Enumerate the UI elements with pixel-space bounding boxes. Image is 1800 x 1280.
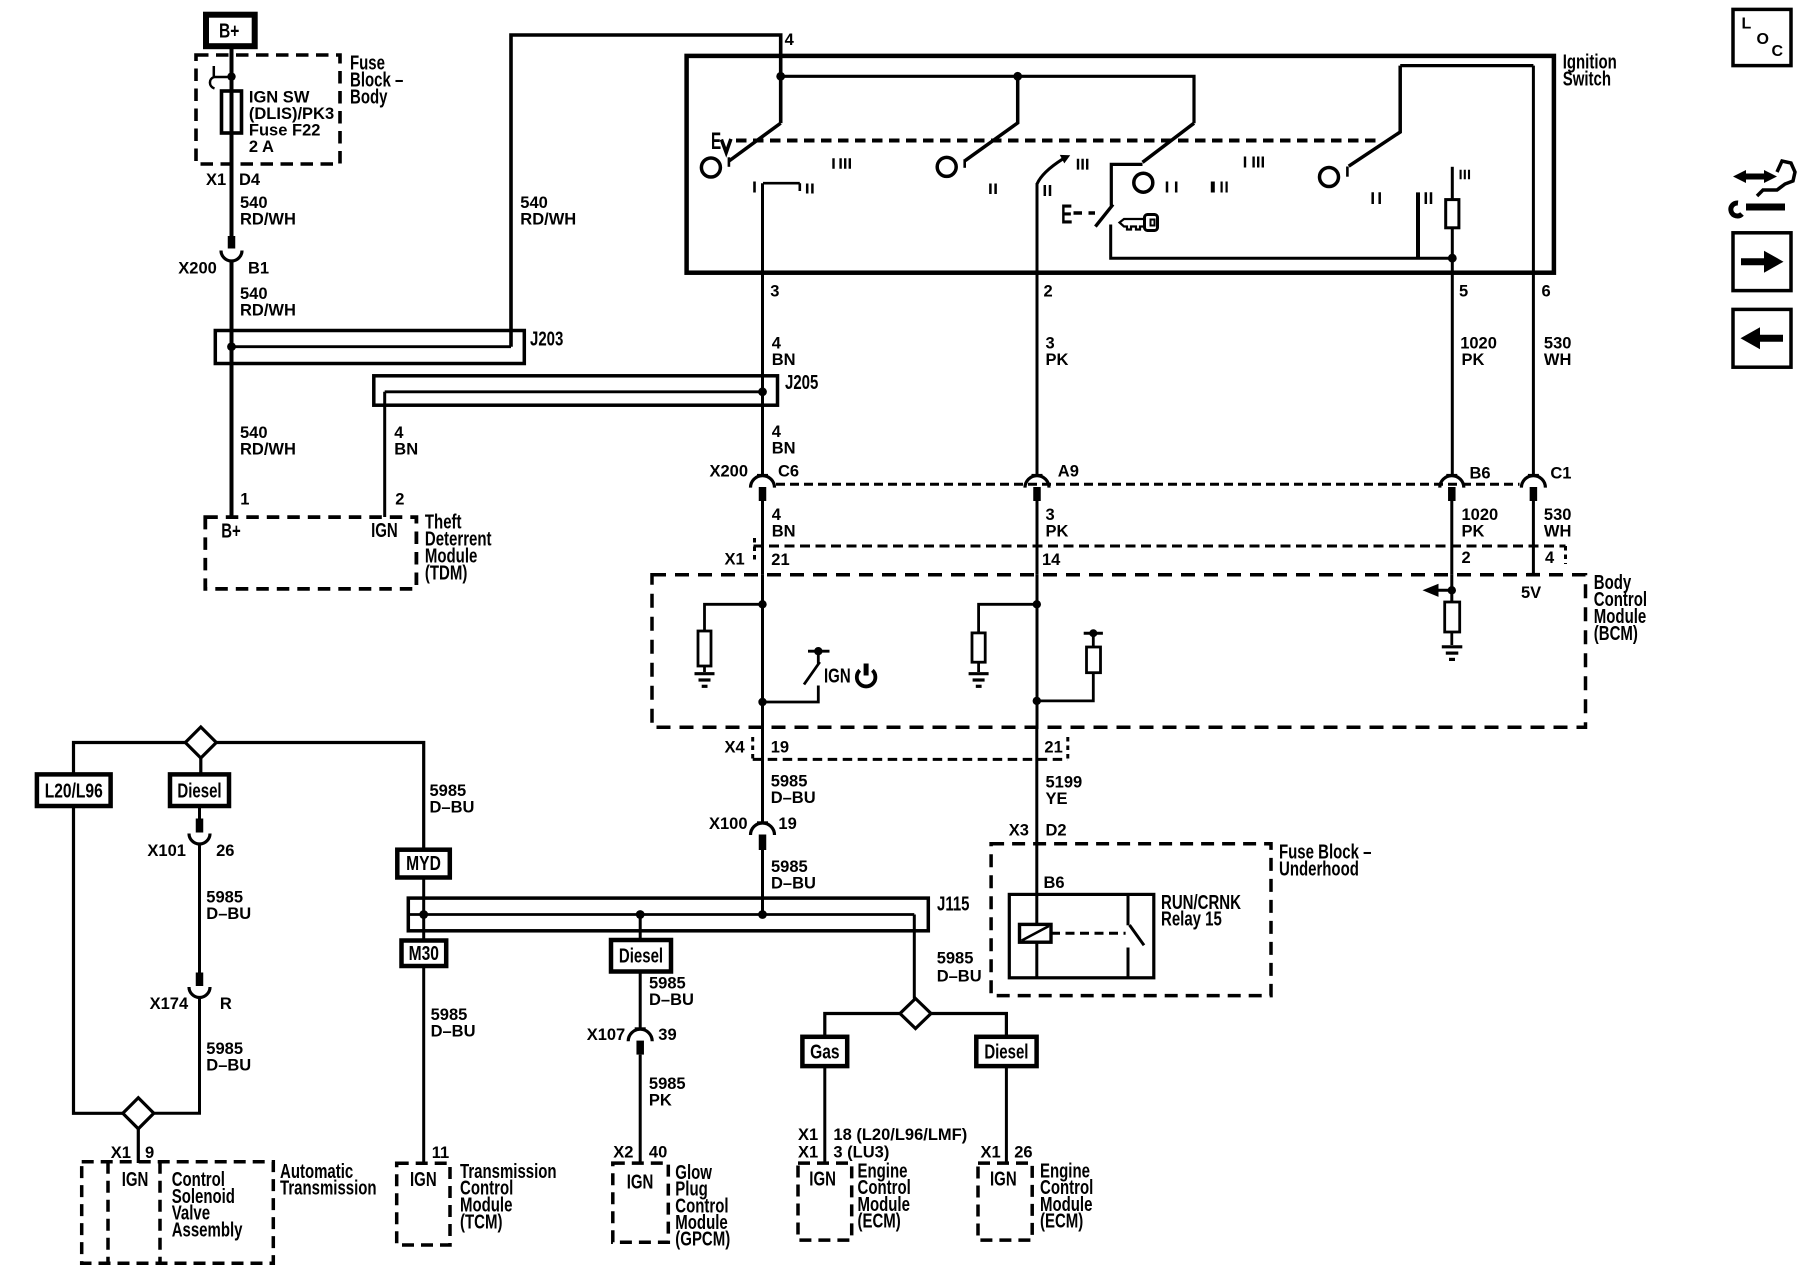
- resistor R-21 branch: [705, 604, 763, 631]
- wafer 5 blade: [1349, 66, 1401, 167]
- svg-text:1: 1: [240, 491, 249, 509]
- wafer 5 marks: [1373, 192, 1380, 204]
- ground (BCM right): [1442, 645, 1463, 648]
- wire label 4 BN (pin 3 mid): [772, 423, 796, 458]
- svg-text:J205: J205: [785, 371, 818, 394]
- svg-text:C1: C1: [1550, 465, 1571, 483]
- svg-text:540: 540: [240, 285, 268, 303]
- wire diamond to Diesel tag (ECM branch): [931, 1014, 1006, 1037]
- svg-text:18 (L20/L96/LMF): 18 (L20/L96/LMF): [833, 1126, 967, 1144]
- wire diamond to Diesel tag (left): [199, 758, 202, 774]
- wire B+ feed down to TDM pin 1: [230, 46, 234, 249]
- svg-text:IGN: IGN: [627, 1171, 654, 1194]
- wire X174 down to diamond: [154, 998, 200, 1114]
- relay contact: [1127, 894, 1130, 925]
- svg-text:X1: X1: [798, 1143, 818, 1161]
- svg-text:B1: B1: [248, 260, 269, 278]
- wire X100 to J115: [761, 850, 764, 915]
- svg-text:IGN: IGN: [122, 1168, 149, 1191]
- wire C6 to BCM pin 21: [761, 501, 764, 575]
- svg-text:2: 2: [395, 491, 404, 509]
- wafer 4 marks III and II: [1078, 159, 1087, 170]
- svg-text:4: 4: [772, 334, 782, 352]
- wire label 540 RD/WH: [240, 194, 296, 229]
- svg-text:IGN SW: IGN SW: [249, 89, 310, 107]
- switch wafer 1 blade: [729, 123, 781, 161]
- resistor in ignition switch: [1446, 200, 1459, 228]
- svg-text:E: E: [711, 128, 721, 154]
- svg-text:B6: B6: [1044, 874, 1065, 892]
- wire label 3 PK (pin 2 upper): [1046, 334, 1069, 369]
- svg-text:X101: X101: [147, 842, 186, 860]
- svg-text:4: 4: [394, 424, 404, 442]
- wire J205 to TDM pin 2: [383, 392, 386, 517]
- svg-text:O: O: [1757, 31, 1769, 48]
- wire BCM pin 21 internal: [761, 575, 764, 727]
- svg-text:19: 19: [778, 815, 796, 833]
- diagnostic tool icon: [1744, 174, 1766, 180]
- connector X200 dashed line: [776, 483, 1520, 486]
- key symbol: [1145, 215, 1158, 231]
- wafer 2 pivot: [937, 157, 956, 176]
- connector X200 pin C1: [1528, 474, 1539, 477]
- wafer 3 pivot: [1134, 173, 1153, 192]
- wire label 4 BN (lower): [772, 506, 796, 541]
- svg-text:X4: X4: [725, 739, 746, 757]
- svg-text:WH: WH: [1544, 522, 1572, 540]
- wire X107 to GPCM: [639, 1055, 642, 1164]
- back arrow box: [1733, 309, 1791, 367]
- pull-up resistor on pin 14: [1084, 632, 1103, 635]
- wire M30 to TCM: [422, 966, 425, 1163]
- svg-text:YE: YE: [1046, 790, 1068, 808]
- svg-text:RD/WH: RD/WH: [240, 211, 296, 229]
- wire label 5985 D-BU: [771, 773, 816, 808]
- svg-text:X2: X2: [613, 1144, 633, 1162]
- power icon: [857, 670, 876, 686]
- svg-text:X174: X174: [150, 995, 189, 1013]
- E position label wafer 1: [711, 128, 721, 154]
- svg-text:A9: A9: [1058, 462, 1079, 480]
- svg-text:D–BU: D–BU: [206, 905, 251, 923]
- connector X3 pin D2 labels: [1009, 822, 1067, 840]
- svg-text:Relay 15: Relay 15: [1161, 907, 1222, 930]
- wire from top loop down to MYD: [216, 743, 423, 850]
- CSVA pin labels X1 9: [111, 1144, 154, 1162]
- Glow Plug Control Module dashed box: [613, 1163, 669, 1242]
- BCM connector X1 dotted line: [754, 545, 1566, 548]
- connector X200 pin A9: [1032, 474, 1043, 477]
- svg-text:21: 21: [771, 551, 789, 569]
- svg-text:5985: 5985: [649, 1075, 686, 1093]
- svg-text:2 A: 2 A: [249, 138, 274, 156]
- svg-text:Diesel: Diesel: [619, 944, 663, 967]
- wire Diesel tag to X107: [639, 972, 642, 1029]
- connector X200 pin C6: [757, 474, 768, 477]
- Body Control Module dashed box: [652, 575, 1586, 728]
- svg-text:PK: PK: [1046, 522, 1069, 540]
- connector X200 pin B1 (inline): [228, 236, 236, 249]
- wire left loop top: [74, 743, 186, 775]
- Engine Control Module (diesel) dashed box: [978, 1163, 1032, 1240]
- svg-text:IGN: IGN: [371, 519, 398, 542]
- svg-text:(TDM): (TDM): [425, 561, 467, 584]
- Engine Control Module (gas) dashed box: [798, 1163, 852, 1240]
- svg-text:IGN: IGN: [824, 664, 851, 687]
- svg-text:1020: 1020: [1462, 506, 1499, 524]
- svg-text:X1: X1: [111, 1144, 131, 1162]
- svg-text:Switch: Switch: [1563, 67, 1611, 90]
- svg-text:19: 19: [771, 739, 789, 757]
- wire label 530 WH (pin 6 upper): [1544, 334, 1572, 369]
- wafer 1 position marks I III: [834, 158, 850, 169]
- IGN sense switch inside BCM: [808, 650, 830, 653]
- svg-text:B+: B+: [221, 520, 241, 543]
- svg-text:26: 26: [216, 842, 234, 860]
- svg-text:2: 2: [1462, 549, 1471, 567]
- svg-text:1020: 1020: [1460, 334, 1497, 352]
- Diesel tag (ECM branch): [976, 1037, 1036, 1066]
- B+ terminal: [206, 15, 255, 47]
- svg-text:BN: BN: [394, 441, 418, 459]
- svg-text:Transmission: Transmission: [280, 1176, 377, 1199]
- M30 tag: [402, 941, 447, 967]
- svg-text:E: E: [1061, 198, 1072, 229]
- svg-text:D2: D2: [1046, 822, 1067, 840]
- wire BCM pin 2 internal: [1450, 575, 1453, 602]
- wire BCM pin 21 (X4) to fuse block: [1035, 727, 1038, 924]
- svg-text:4: 4: [772, 506, 782, 524]
- svg-text:X200: X200: [178, 260, 217, 278]
- svg-text:Fuse F22: Fuse F22: [249, 122, 321, 140]
- svg-text:D4: D4: [239, 171, 261, 189]
- svg-text:D–BU: D–BU: [206, 1057, 251, 1075]
- svg-text:6: 6: [1542, 283, 1551, 301]
- wire Gas to ECM: [823, 1066, 826, 1163]
- svg-text:Gas: Gas: [810, 1041, 839, 1063]
- wire X101 to X174: [198, 844, 201, 973]
- svg-text:530: 530: [1544, 334, 1572, 352]
- svg-text:(ECM): (ECM): [858, 1209, 901, 1232]
- svg-text:5985: 5985: [771, 773, 808, 791]
- resistor R-2: [1445, 602, 1460, 632]
- wire ignition pin 2: [1036, 183, 1039, 475]
- svg-text:D–BU: D–BU: [431, 1023, 476, 1041]
- wire from J203 up and over to ignition switch pin 4: [511, 35, 781, 347]
- wafer 2 position marks II: [990, 184, 995, 195]
- svg-text:RD/WH: RD/WH: [240, 302, 296, 320]
- fuse block name: [350, 51, 403, 108]
- svg-text:14: 14: [1042, 551, 1061, 569]
- wafer 3 position marks: [1167, 182, 1176, 193]
- ignition switch box: [687, 56, 1554, 273]
- MYD tag: [397, 850, 450, 878]
- svg-text:3: 3: [770, 283, 779, 301]
- svg-text:D–BU: D–BU: [937, 968, 982, 986]
- RUN/CRNK Relay 15 box: [1009, 894, 1154, 977]
- svg-text:X1: X1: [798, 1126, 818, 1144]
- TCM pin 11 label: [432, 1144, 449, 1162]
- switch wafer 3 (key) blade: [1143, 123, 1195, 162]
- wafer 5 resistor branch: [1451, 167, 1454, 200]
- wire label 3 PK (lower): [1046, 506, 1069, 541]
- svg-text:4: 4: [1545, 549, 1555, 567]
- svg-text:IGN: IGN: [990, 1168, 1017, 1191]
- svg-text:(ECM): (ECM): [1040, 1209, 1083, 1232]
- splice J115: [408, 898, 928, 931]
- wafer 3 E contact blade: [1095, 205, 1113, 227]
- svg-text:X3: X3: [1009, 822, 1029, 840]
- connector X100 pin 19: [757, 821, 768, 824]
- relay coil: [1020, 924, 1052, 942]
- diamond split gas/diesel: [900, 999, 931, 1029]
- wire label 1020 PK (lower): [1462, 506, 1499, 541]
- svg-text:(TCM): (TCM): [460, 1210, 502, 1233]
- svg-text:21: 21: [1044, 739, 1062, 757]
- Diesel tag (GPCM branch): [611, 940, 671, 972]
- wire label 530 WH (lower): [1544, 506, 1572, 541]
- svg-text:IGN: IGN: [809, 1168, 836, 1191]
- svg-text:(DLIS)/PK3: (DLIS)/PK3: [249, 105, 334, 123]
- svg-text:D–BU: D–BU: [771, 789, 816, 807]
- svg-text:Body: Body: [350, 85, 388, 108]
- ground (BCM mid): [969, 672, 989, 675]
- Transmission Control Module dashed box: [397, 1163, 450, 1245]
- svg-text:PK: PK: [649, 1091, 672, 1109]
- wire ignition pin 5: [1451, 258, 1454, 475]
- wire J115 to M30: [422, 915, 425, 941]
- svg-text:X100: X100: [709, 815, 748, 833]
- pin 4 label: [785, 31, 795, 49]
- svg-text:530: 530: [1544, 506, 1572, 524]
- diamond merge bottom-left: [123, 1098, 154, 1129]
- switch wafer 4 curved blade with arrow: [1037, 159, 1063, 184]
- svg-text:RD/WH: RD/WH: [240, 441, 296, 459]
- svg-text:540: 540: [240, 424, 268, 442]
- svg-text:5985: 5985: [431, 1006, 468, 1024]
- splice J205: [374, 376, 778, 405]
- forward arrow box: [1733, 233, 1791, 291]
- svg-text:WH: WH: [1544, 351, 1572, 369]
- LOC legend box: [1733, 9, 1791, 65]
- svg-text:BN: BN: [772, 522, 796, 540]
- splice J203: [215, 331, 524, 364]
- svg-text:Underhood: Underhood: [1279, 857, 1359, 880]
- svg-text:B+: B+: [219, 20, 239, 42]
- wire ignition pin 3: [761, 183, 764, 475]
- wire A9 to BCM pin 14: [1036, 501, 1039, 575]
- svg-text:Diesel: Diesel: [177, 779, 221, 802]
- diamond split top-left: [185, 727, 216, 758]
- TDM pin labels: [240, 491, 404, 509]
- wire diamond to Gas tag: [825, 1014, 900, 1037]
- connector X174 pin R: [196, 973, 204, 987]
- BCM 5V label: [1521, 584, 1541, 602]
- svg-text:5199: 5199: [1046, 774, 1083, 792]
- svg-text:(BCM): (BCM): [1594, 622, 1638, 645]
- wire BCM pin 14 internal: [1036, 575, 1039, 727]
- svg-text:5985: 5985: [206, 888, 243, 906]
- svg-text:D–BU: D–BU: [649, 991, 694, 1009]
- svg-text:Assembly: Assembly: [172, 1218, 243, 1241]
- connector X101 pin 26: [196, 819, 204, 833]
- wafer 1 pivot: [701, 158, 720, 177]
- Gas tag: [802, 1037, 847, 1066]
- svg-text:39: 39: [658, 1026, 676, 1044]
- svg-text:C6: C6: [778, 462, 799, 480]
- wire C1 to BCM pin 4: [1532, 501, 1535, 574]
- svg-text:PK: PK: [1462, 522, 1485, 540]
- GPCM pin labels X2 40: [613, 1144, 667, 1162]
- svg-text:540: 540: [520, 194, 548, 212]
- svg-text:BN: BN: [772, 440, 796, 458]
- wire label 1020 PK (pin 5 upper): [1460, 334, 1497, 369]
- relay actuation dashed link: [1051, 932, 1126, 935]
- Control Solenoid Valve Assembly dashed box: [82, 1162, 274, 1264]
- svg-text:C: C: [1772, 43, 1784, 60]
- ECM diesel pin labels X1 26: [981, 1143, 1033, 1161]
- svg-text:4: 4: [772, 423, 782, 441]
- wire B6 to BCM pin 2: [1450, 501, 1453, 575]
- svg-text:J203: J203: [530, 327, 563, 350]
- svg-text:26: 26: [1014, 1143, 1032, 1161]
- svg-text:5V: 5V: [1521, 584, 1541, 602]
- svg-text:L20/L96: L20/L96: [45, 780, 103, 802]
- ground (BCM left): [695, 672, 715, 675]
- svg-text:X107: X107: [587, 1026, 626, 1044]
- wire J115 to Diesel tag (GPCM branch): [639, 915, 642, 941]
- switch wafer 2 blade: [965, 76, 1018, 160]
- wire diamond to CSVA pin 9: [137, 1129, 140, 1163]
- svg-text:BN: BN: [772, 351, 796, 369]
- ignition pin numbers: [770, 283, 1550, 301]
- switch wafer 5 bus to pin 6: [1400, 64, 1533, 67]
- Fuse Block - Body dashed box: [196, 55, 340, 164]
- svg-text:4: 4: [785, 31, 795, 49]
- svg-text:40: 40: [649, 1144, 667, 1162]
- wafer 1 contact I-II: [753, 182, 756, 193]
- wire MYD to J115: [422, 878, 425, 915]
- svg-text:D–BU: D–BU: [430, 798, 475, 816]
- wafer 5 pivot: [1320, 168, 1339, 187]
- arrow (signal out): [1436, 589, 1455, 592]
- wire J115 right leg down to diamond: [913, 915, 916, 999]
- wire Diesel to ECM: [1005, 1066, 1008, 1163]
- svg-text:11: 11: [432, 1144, 449, 1162]
- fuse F22 (IGN SW fuse): [222, 91, 242, 133]
- svg-text:Diesel: Diesel: [984, 1040, 1028, 1063]
- node: fuse block internal tap (hook): [227, 72, 235, 80]
- connector X1 pin D4 labels: [206, 171, 261, 189]
- ECM gas pin labels: [798, 1126, 967, 1161]
- resistor R-14 branch: [979, 604, 1037, 633]
- svg-text:5985: 5985: [430, 782, 467, 800]
- wire label 540 RD/WH: [240, 285, 296, 320]
- L20/L96 tag: [37, 774, 111, 806]
- svg-text:X1: X1: [206, 171, 226, 189]
- svg-text:L: L: [1742, 16, 1752, 33]
- wire ignition pin 6: [1532, 66, 1535, 475]
- Diesel tag (left): [170, 774, 229, 806]
- svg-text:PK: PK: [1462, 351, 1485, 369]
- node on pin 21 wire: [758, 600, 766, 608]
- svg-text:RD/WH: RD/WH: [520, 211, 576, 229]
- wire Diesel to X101: [198, 806, 201, 819]
- svg-text:PK: PK: [1046, 351, 1069, 369]
- svg-text:M30: M30: [409, 942, 439, 964]
- relay pin B6 label: [1044, 874, 1065, 892]
- svg-text:540: 540: [240, 194, 268, 212]
- wafer 5 contact pin II: [1416, 192, 1420, 258]
- svg-text:5985: 5985: [771, 858, 808, 876]
- svg-text:X1: X1: [981, 1143, 1001, 1161]
- svg-text:3: 3: [1046, 334, 1055, 352]
- connector X107 pin 39: [635, 1027, 646, 1030]
- svg-text:IGN: IGN: [410, 1168, 437, 1191]
- svg-text:X200: X200: [710, 462, 749, 480]
- wire label 540 RD/WH lower: [240, 424, 296, 459]
- BCM connector X4 dotted line: [753, 758, 1068, 761]
- svg-text:5985: 5985: [206, 1040, 243, 1058]
- wire left loop down: [74, 806, 123, 1113]
- wire label 4 BN (pin 3 upper): [772, 334, 796, 369]
- svg-text:MYD: MYD: [406, 852, 441, 874]
- wire BCM pin 19 down: [761, 727, 764, 823]
- svg-text:5: 5: [1459, 283, 1468, 301]
- svg-text:B6: B6: [1470, 465, 1491, 483]
- Automatic Transmission caption: [280, 1160, 377, 1199]
- svg-text:5985: 5985: [937, 950, 974, 968]
- svg-text:R: R: [220, 995, 232, 1013]
- svg-text:D–BU: D–BU: [771, 874, 816, 892]
- Theft Deterrent Module (TDM) dashed box: [205, 517, 416, 589]
- svg-text:X1: X1: [725, 551, 745, 569]
- svg-text:2: 2: [1044, 283, 1053, 301]
- svg-text:9: 9: [145, 1144, 154, 1162]
- Fuse Block - Underhood dashed box: [991, 844, 1271, 996]
- svg-text:J115: J115: [937, 892, 970, 915]
- internal bus from pin 4: [781, 76, 1194, 123]
- svg-text:3: 3: [1046, 506, 1055, 524]
- svg-text:(GPCM): (GPCM): [675, 1228, 730, 1251]
- connector X200 pin B6: [1446, 474, 1457, 477]
- mechanical linkage dashed line: [736, 139, 1378, 143]
